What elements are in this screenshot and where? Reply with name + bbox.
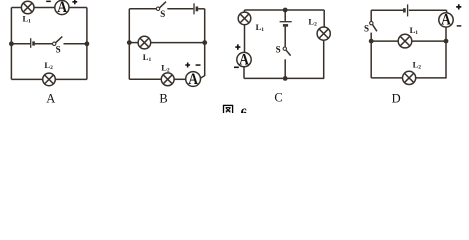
svg-text:L1: L1 bbox=[23, 13, 32, 24]
svg-text:L1: L1 bbox=[143, 52, 152, 63]
svg-text:A: A bbox=[441, 12, 451, 29]
svg-text:D: D bbox=[392, 91, 401, 105]
svg-text:L2: L2 bbox=[413, 60, 422, 71]
svg-text:A: A bbox=[46, 91, 55, 105]
svg-text:S: S bbox=[160, 9, 165, 19]
svg-text:L1: L1 bbox=[256, 22, 265, 33]
svg-text:L2: L2 bbox=[44, 60, 53, 71]
svg-text:A: A bbox=[188, 71, 198, 88]
svg-text:L2: L2 bbox=[161, 63, 170, 74]
svg-text:A: A bbox=[57, 0, 67, 16]
svg-text:L1: L1 bbox=[410, 25, 419, 36]
svg-text:S: S bbox=[56, 44, 61, 54]
svg-text:C: C bbox=[274, 91, 282, 105]
svg-text:S: S bbox=[276, 45, 281, 55]
svg-text:6: 6 bbox=[241, 105, 248, 113]
svg-text:L2: L2 bbox=[308, 16, 317, 27]
svg-text:A: A bbox=[239, 51, 249, 68]
svg-text:S: S bbox=[364, 24, 369, 34]
svg-text:B: B bbox=[159, 91, 167, 105]
